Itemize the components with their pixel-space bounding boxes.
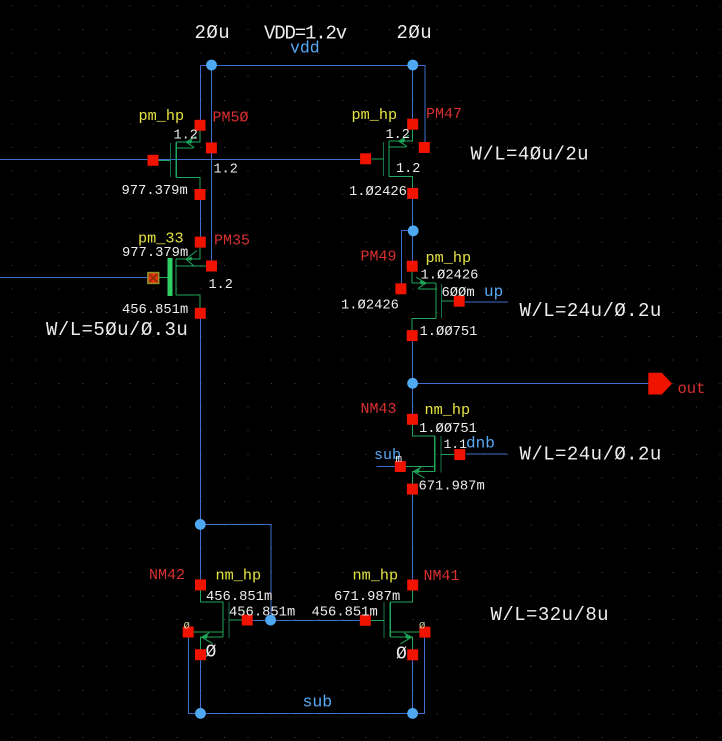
svg-text:671.987m: 671.987m bbox=[334, 590, 400, 605]
value PM50 1.2 (bulk) bbox=[214, 163, 238, 178]
value W/L=40u/2u bbox=[471, 143, 590, 165]
svg-text:sub: sub bbox=[303, 693, 333, 712]
junction vdd-PM50 bulk bbox=[206, 60, 217, 71]
svg-text:1.2: 1.2 bbox=[214, 163, 238, 178]
svg-text:1.1: 1.1 bbox=[444, 437, 468, 452]
wire PM49 bulk tie bbox=[402, 231, 414, 285]
value 20u (left current) bbox=[195, 22, 231, 44]
svg-text:1.2: 1.2 bbox=[396, 162, 420, 177]
pin out (output terminal) bbox=[648, 373, 672, 395]
svg-text:977.379m: 977.379m bbox=[122, 246, 188, 261]
junction PM47 drain / PM49 gate+bulk tie bbox=[408, 225, 419, 236]
svg-text:NM41: NM41 bbox=[424, 568, 460, 585]
pin PM50 gate bbox=[148, 155, 159, 166]
svg-text:PM47: PM47 bbox=[426, 106, 462, 123]
wire NM43 source to NM41 drain bbox=[412, 494, 414, 580]
value 20u (right current) bbox=[397, 22, 433, 44]
pin NM43 drain (top) bbox=[407, 414, 418, 425]
svg-text:NM43: NM43 bbox=[361, 401, 397, 418]
pin PM47 bulk bbox=[419, 142, 430, 153]
svg-text:2Øu: 2Øu bbox=[195, 22, 231, 44]
wire vdd to PM47 bulk bbox=[424, 66, 426, 148]
svg-text:671.987m: 671.987m bbox=[419, 480, 485, 495]
pin PM35 drain (top) bbox=[195, 237, 206, 248]
pin NM43 bulk bbox=[395, 461, 406, 472]
label PM50 cell pm_hp bbox=[139, 107, 185, 125]
wire vdd to PM50/PM35 bulk bbox=[211, 66, 213, 267]
pin PM50 drain (bottom) bbox=[195, 189, 206, 200]
svg-text:W/L=24u/Ø.2u: W/L=24u/Ø.2u bbox=[520, 300, 662, 322]
svg-text:up: up bbox=[484, 283, 503, 301]
pin PM35 source (bottom) bbox=[195, 308, 206, 319]
label NM42 name bbox=[149, 567, 185, 584]
svg-text:pm_hp: pm_hp bbox=[139, 107, 185, 125]
wire vdd to PM47 source bbox=[412, 66, 414, 121]
label NM42 cell nm_hp bbox=[216, 567, 262, 585]
pin NM41 drain (top) bbox=[407, 580, 418, 591]
value NM41 671.987m (drain) bbox=[334, 590, 400, 605]
value NM43 1.1 bbox=[444, 437, 468, 452]
svg-text:Ø: Ø bbox=[396, 645, 407, 665]
pin NM42 drain (top) bbox=[195, 579, 206, 590]
value PM35 456.851m bbox=[122, 303, 188, 318]
svg-text:dnb: dnb bbox=[466, 435, 495, 453]
wire NM41 source to sub rail bbox=[412, 660, 414, 714]
junction sub rail right bbox=[407, 708, 418, 719]
svg-text:PM5Ø: PM5Ø bbox=[213, 110, 249, 127]
wire vdd rail (net vdd) bbox=[201, 65, 426, 67]
label NM43 name bbox=[361, 401, 397, 418]
svg-text:out: out bbox=[678, 380, 706, 398]
value W/L=32u/8u bbox=[491, 604, 610, 626]
net label up bbox=[484, 283, 503, 301]
transistor NM41 (nmos nm_hp) symbol bbox=[371, 590, 420, 650]
value PM49 1.02426 (top) bbox=[421, 267, 479, 283]
value W/L=24u/0.2u (up) bbox=[520, 300, 662, 322]
pin PM49 bulk bbox=[395, 283, 406, 294]
label PM35 cell pm_33 bbox=[138, 230, 184, 248]
wire gate line to PM50/PM47 gates bbox=[0, 159, 361, 161]
value NM41 source 0 bbox=[396, 645, 407, 665]
svg-text:1.Ø2426: 1.Ø2426 bbox=[341, 298, 399, 314]
value NM41 456.851m (gate) bbox=[312, 606, 378, 621]
svg-text:pm_33: pm_33 bbox=[138, 230, 184, 248]
svg-text:NM42: NM42 bbox=[149, 567, 185, 584]
junction node n1 / NM42 gate tie bbox=[195, 519, 206, 530]
svg-text:456.851m: 456.851m bbox=[312, 606, 378, 621]
net label dnb bbox=[466, 435, 495, 453]
label NM41 name bbox=[424, 568, 460, 585]
value W/L=24u/0.2u (dnb) bbox=[520, 443, 662, 465]
value PM49 600m bbox=[442, 285, 475, 301]
svg-text:vdd: vdd bbox=[290, 39, 320, 58]
pin NM43 gate bbox=[454, 449, 465, 460]
wire node out to out pin bbox=[413, 383, 650, 385]
pin PM49 gate bbox=[454, 296, 465, 307]
svg-text:977.379m: 977.379m bbox=[122, 184, 188, 199]
svg-text:W/L=5Øu/Ø.3u: W/L=5Øu/Ø.3u bbox=[46, 319, 188, 341]
pin NM42 bulk bbox=[183, 627, 194, 638]
transistor PM35 (pmos pm_33 thick-oxide) symbol bbox=[159, 248, 206, 308]
net label sub (rail) bbox=[303, 693, 333, 712]
value PM35 1.2 (bulk) bbox=[209, 278, 233, 293]
svg-text:Ø: Ø bbox=[419, 620, 425, 632]
pin PM50 bulk bbox=[206, 142, 217, 153]
pin PM47 source (top) bbox=[407, 119, 418, 130]
value NM43 bulk m bbox=[396, 454, 403, 466]
label PM49 cell pm_hp bbox=[426, 249, 472, 267]
pin PM49 source (top) bbox=[407, 261, 418, 272]
svg-text:1.2: 1.2 bbox=[174, 129, 198, 144]
wire NM42 source to sub rail bbox=[200, 660, 202, 714]
wire PM35 drain to NM42 drain (node n1) bbox=[200, 318, 202, 580]
svg-text:W/L=32u/8u: W/L=32u/8u bbox=[491, 604, 610, 626]
value NM43 671.987m bbox=[419, 480, 485, 495]
label PM47 name bbox=[426, 106, 462, 123]
label NM41 cell nm_hp bbox=[353, 567, 399, 585]
value PM49 1.02426 (bulk) bbox=[341, 298, 399, 314]
svg-text:PM35: PM35 bbox=[214, 233, 250, 250]
label PM49 name bbox=[361, 249, 397, 266]
pin PM49 drain (bottom) bbox=[407, 330, 418, 341]
junction node out bbox=[407, 378, 418, 389]
svg-text:Ø: Ø bbox=[206, 643, 217, 663]
pin NM42 source (bottom) bbox=[195, 649, 206, 660]
junction vdd-PM47 drop bbox=[407, 60, 418, 71]
svg-text:m: m bbox=[396, 454, 403, 466]
svg-text:1.2: 1.2 bbox=[209, 278, 233, 293]
value NM42 456.851m (gate) bbox=[229, 606, 295, 621]
pin NM41 bulk bbox=[419, 627, 430, 638]
transistor PM49 (pmos pm_hp, mirrored) symbol bbox=[412, 271, 453, 330]
svg-text:Ø: Ø bbox=[184, 620, 190, 632]
junction sub rail left bbox=[195, 708, 206, 719]
value PM47 1.02426 bbox=[349, 184, 407, 200]
wire input to PM35 gate bbox=[0, 277, 150, 279]
svg-text:nm_hp: nm_hp bbox=[425, 401, 471, 419]
svg-text:nm_hp: nm_hp bbox=[216, 567, 262, 585]
value PM47 1.2 (top) bbox=[386, 128, 410, 143]
wire NM41 bulk to sub rail bbox=[424, 638, 426, 714]
svg-text:W/L=24u/Ø.2u: W/L=24u/Ø.2u bbox=[520, 443, 662, 465]
svg-text:1.Ø2426: 1.Ø2426 bbox=[421, 267, 479, 283]
svg-text:6ØØm: 6ØØm bbox=[442, 285, 475, 301]
wire node n1 to NM42 gate tie bbox=[201, 525, 271, 621]
value NM42 456.851m (drain) bbox=[206, 590, 272, 605]
pin NM43 source (bottom) bbox=[407, 484, 418, 495]
value PM50 1.2 (top) bbox=[174, 129, 198, 144]
pin PM35 gate (X marker) bbox=[148, 273, 159, 284]
value PM50 977.379m bbox=[122, 184, 188, 199]
wire up net stub bbox=[465, 301, 508, 303]
wire dnb net stub bbox=[466, 453, 507, 455]
junction NM42/NM41 gate line bbox=[265, 615, 276, 626]
net label sub (NM43 bulk) bbox=[374, 447, 401, 464]
label PM50 name bbox=[213, 110, 249, 127]
transistor NM43 (nmos nm_hp, mirrored) symbol bbox=[405, 424, 454, 484]
wire PM47 drain to PM49 source bbox=[412, 199, 414, 262]
value PM49 1.00751 bbox=[420, 324, 478, 340]
label PM35 name bbox=[214, 233, 250, 250]
pin PM47 drain (bottom) bbox=[407, 188, 418, 199]
value VDD=1.2v bbox=[264, 22, 347, 44]
wire NM42 gate to NM41 gate bbox=[252, 620, 360, 622]
net label vdd bbox=[290, 39, 320, 58]
value PM35 977.379m bbox=[122, 246, 188, 261]
wire sub rail (net sub) bbox=[189, 713, 426, 715]
svg-text:1.ØØ751: 1.ØØ751 bbox=[420, 324, 478, 340]
svg-text:456.851m: 456.851m bbox=[206, 590, 272, 605]
pin NM41 gate bbox=[360, 615, 371, 626]
pin NM41 source (bottom) bbox=[407, 649, 418, 660]
value NM41 bulk 0 bbox=[419, 620, 425, 632]
svg-text:456.851m: 456.851m bbox=[122, 303, 188, 318]
svg-text:456.851m: 456.851m bbox=[229, 606, 295, 621]
value NM42 source 0 bbox=[206, 643, 217, 663]
transistor NM42 (nmos nm_hp, mirrored) symbol bbox=[193, 590, 242, 650]
svg-text:pm_hp: pm_hp bbox=[352, 106, 398, 124]
value NM43 1.00751 bbox=[419, 421, 477, 437]
value NM42 bulk 0 bbox=[184, 620, 190, 632]
label out bbox=[678, 380, 706, 398]
svg-text:W/L=4Øu/2u: W/L=4Øu/2u bbox=[471, 143, 590, 165]
wire NM42 bulk to sub rail bbox=[188, 638, 190, 714]
value W/L=50u/0.3u bbox=[46, 319, 188, 341]
svg-text:PM49: PM49 bbox=[361, 249, 397, 266]
value PM47 1.2 (bulk) bbox=[396, 162, 420, 177]
svg-text:pm_hp: pm_hp bbox=[426, 249, 472, 267]
svg-text:1.2: 1.2 bbox=[386, 128, 410, 143]
pin PM47 gate bbox=[360, 153, 371, 164]
wire PM49 drain to NM43 drain (node out) bbox=[412, 341, 414, 415]
transistor PM50 (pmos pm_hp) symbol bbox=[159, 130, 200, 189]
pin PM35 bulk bbox=[206, 261, 217, 272]
pin NM42 gate bbox=[242, 615, 253, 626]
wire PM50 drain to PM35 source bbox=[200, 199, 202, 238]
transistor PM47 (pmos pm_hp) symbol bbox=[371, 129, 412, 188]
pin PM50 source (top) bbox=[195, 120, 206, 131]
label PM47 cell pm_hp bbox=[352, 106, 398, 124]
svg-text:2Øu: 2Øu bbox=[397, 22, 433, 44]
wire sub stub at NM43 bulk bbox=[377, 466, 396, 468]
wire vdd to PM50 source bbox=[200, 66, 202, 122]
label NM43 cell nm_hp bbox=[425, 401, 471, 419]
svg-text:nm_hp: nm_hp bbox=[353, 567, 399, 585]
svg-text:1.Ø2426: 1.Ø2426 bbox=[349, 184, 407, 200]
